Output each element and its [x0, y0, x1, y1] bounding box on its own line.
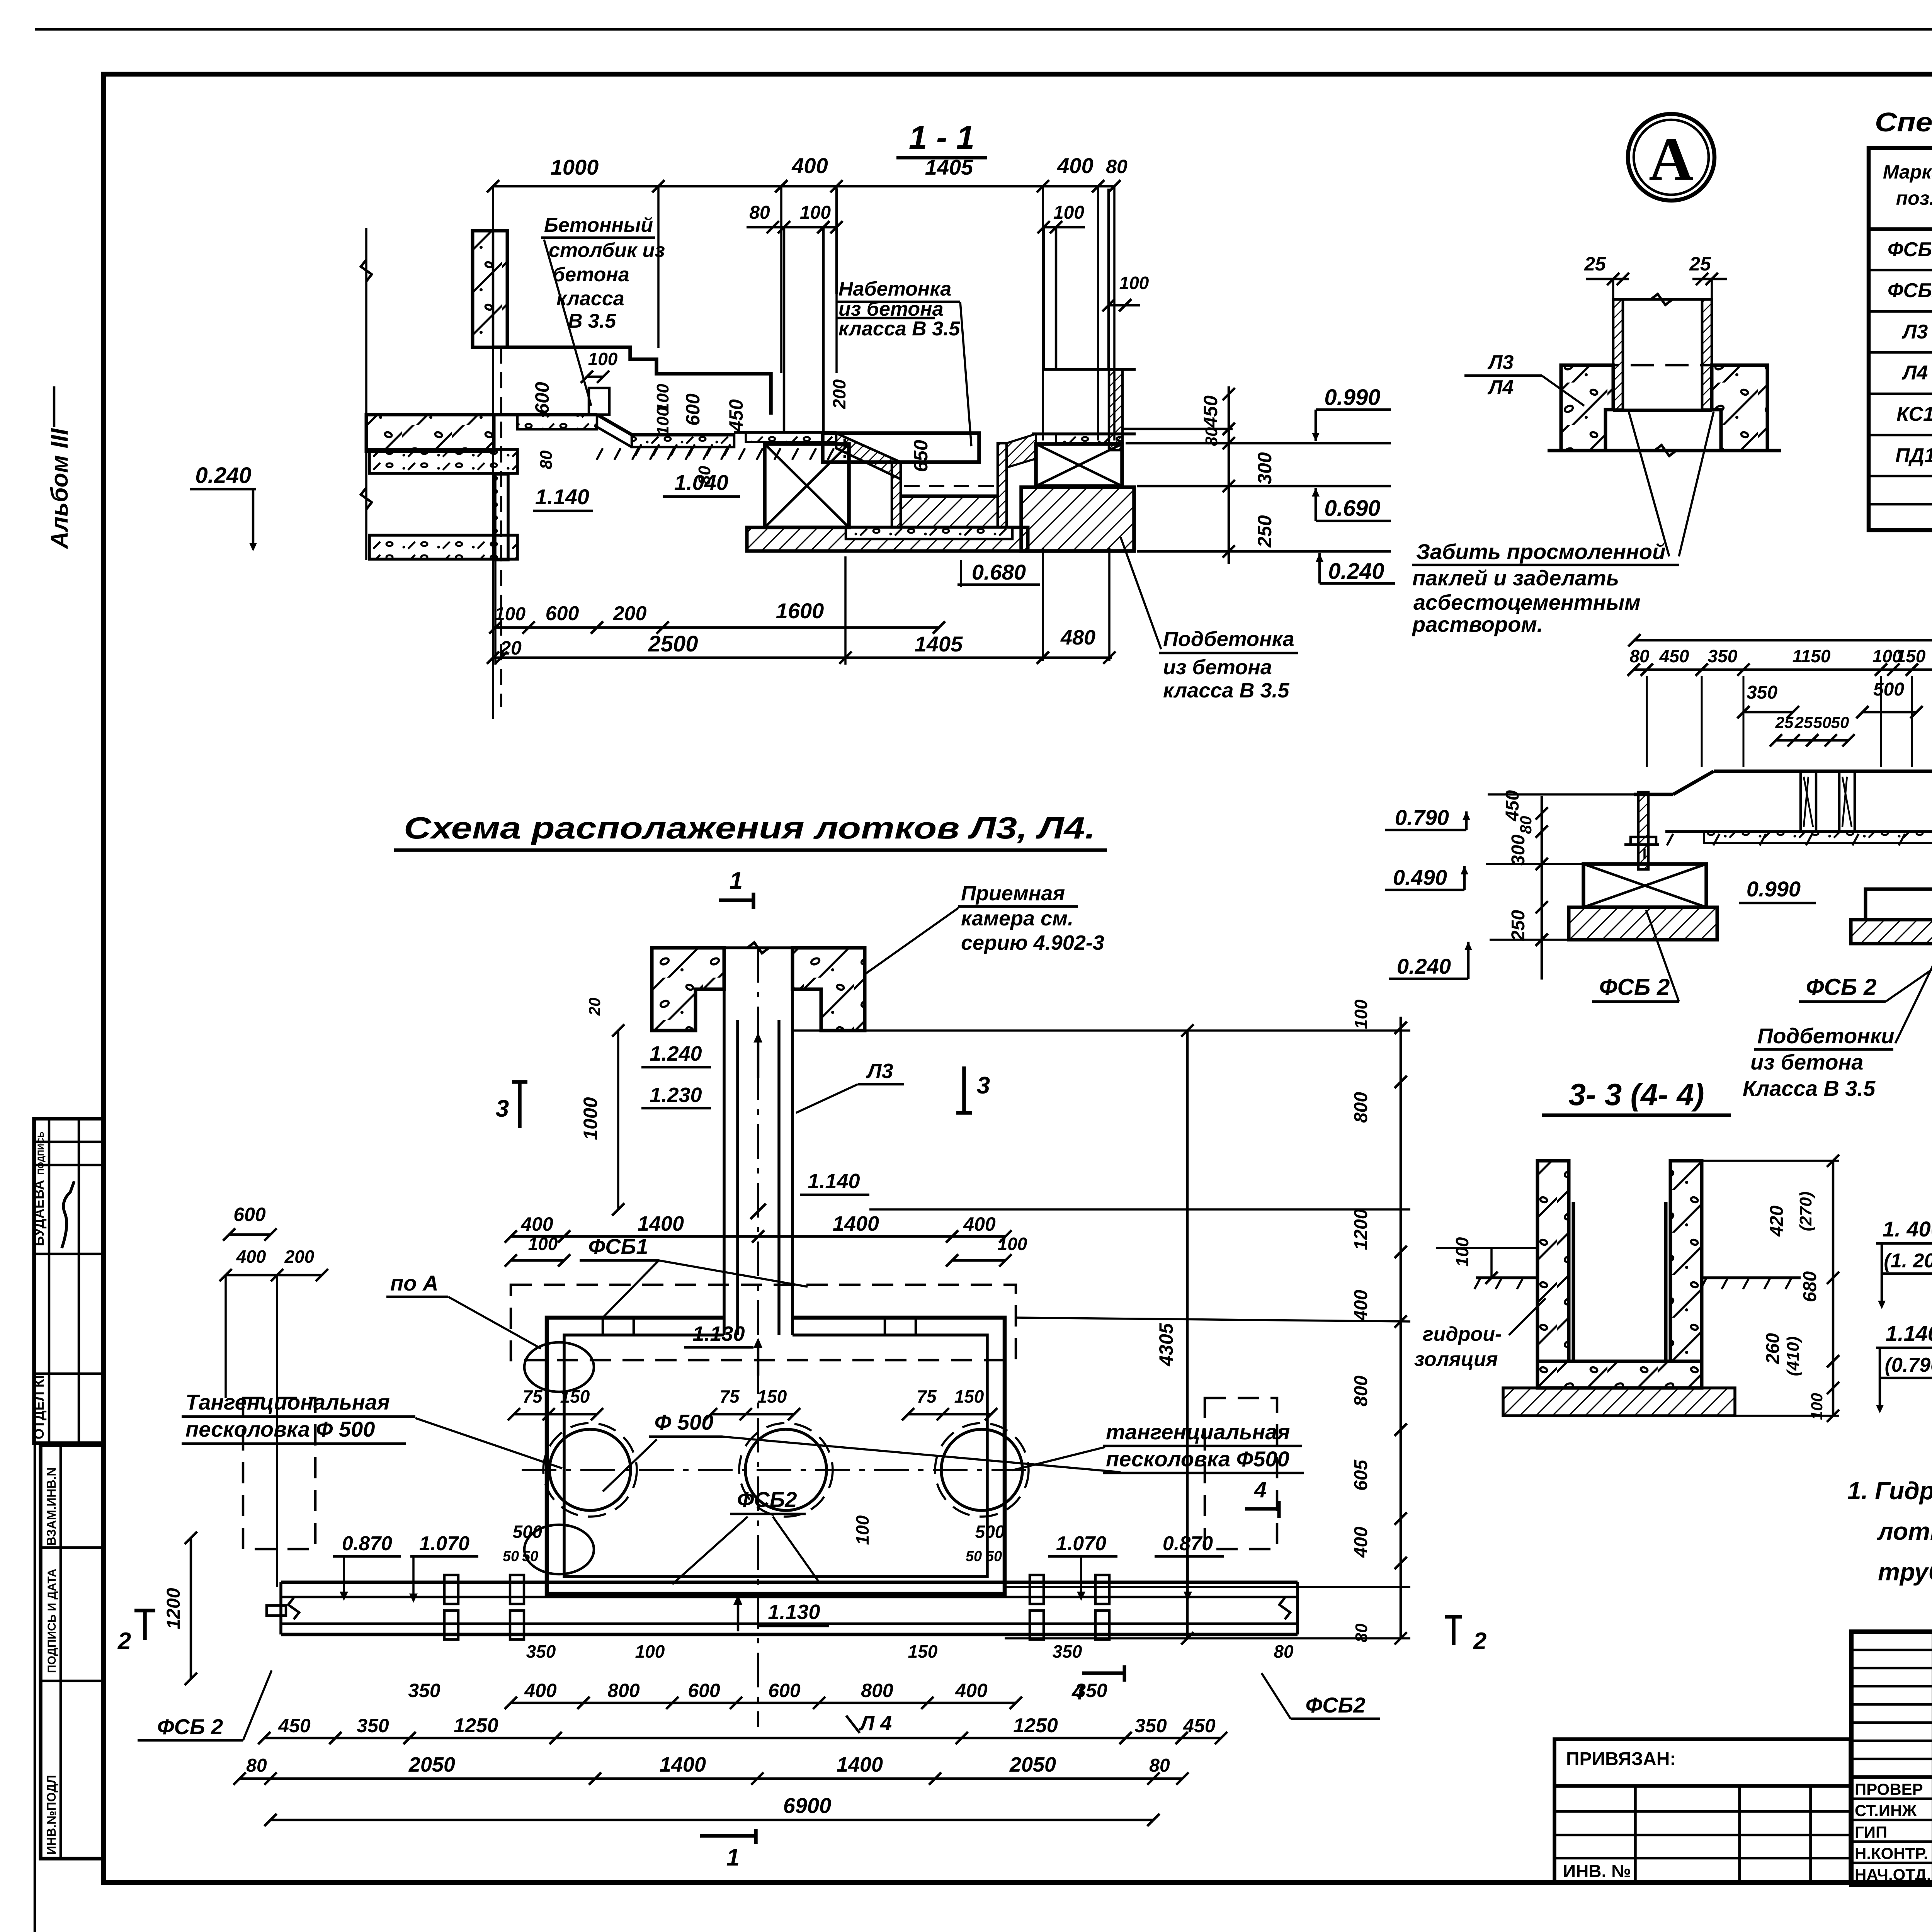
title block upper small rows — [1851, 1649, 1932, 1651]
1-1 left X-box — [765, 444, 849, 527]
svg-text:605: 605 — [1351, 1459, 1371, 1491]
svg-text:Тангенциональная: Тангенциональная — [185, 1390, 390, 1414]
svg-text:0.240: 0.240 — [1328, 559, 1384, 584]
plan bottom dim row B — [264, 1737, 1221, 1740]
svg-text:600: 600 — [682, 393, 704, 426]
plan L3 flow arrow — [757, 1036, 760, 1078]
svg-text:450: 450 — [1200, 395, 1221, 428]
plan top dim chain — [511, 1235, 1005, 1238]
svg-text:класса В 3.5: класса В 3.5 — [838, 318, 960, 340]
svg-text:350: 350 — [526, 1641, 556, 1662]
3-3 U channel right wall — [1670, 1161, 1702, 1361]
svg-text:400: 400 — [236, 1247, 266, 1267]
svg-text:(410): (410) — [1784, 1337, 1803, 1376]
1-1 floor band lower — [632, 433, 734, 437]
detail A channel walls — [1613, 299, 1623, 410]
title block frame — [1851, 1632, 1932, 1884]
svg-text:класса: класса — [556, 287, 624, 310]
svg-text:80: 80 — [1106, 156, 1128, 177]
svg-text:из бетона: из бетона — [1750, 1050, 1863, 1074]
2-2 witness lines — [1646, 676, 1648, 767]
svg-text:1250: 1250 — [454, 1714, 498, 1737]
1-1 ramp into trough right — [1007, 434, 1036, 468]
svg-text:1 - 1: 1 - 1 — [909, 119, 975, 156]
2-2 middle pad hatched — [1851, 920, 1932, 944]
svg-text:800: 800 — [861, 1680, 893, 1701]
svg-text:1: 1 — [730, 867, 743, 894]
svg-text:0.990: 0.990 — [1324, 385, 1380, 410]
1-1 top witness lines — [492, 186, 494, 719]
2-2 left vertical dim — [1541, 796, 1543, 980]
svg-text:100: 100 — [998, 1234, 1027, 1254]
detail A leaders to note — [1629, 412, 1669, 556]
svg-text:КС1: КС1 — [1896, 403, 1932, 425]
svg-text:труб см. лист АС 15.: труб см. лист АС 15. — [1878, 1558, 1932, 1586]
svg-text:столбик из: столбик из — [549, 239, 665, 262]
svg-text:80: 80 — [1202, 427, 1221, 446]
svg-text:1.230: 1.230 — [650, 1083, 702, 1107]
svg-text:Л4: Л4 — [1901, 362, 1928, 384]
svg-text:1.070: 1.070 — [419, 1532, 469, 1555]
1-1 central witness walls — [783, 227, 786, 433]
svg-text:из бетона: из бетона — [1163, 656, 1272, 679]
detail A circle mark — [1628, 114, 1714, 201]
svg-text:350: 350 — [1708, 646, 1738, 666]
svg-text:ВЗАМ.ИНВ.N: ВЗАМ.ИНВ.N — [44, 1467, 58, 1546]
2-2 left footing X-box — [1583, 864, 1706, 907]
1-1 bottom pebble strip — [846, 527, 1012, 539]
svg-text:500: 500 — [1873, 679, 1904, 700]
svg-text:песколовка Ф 500: песколовка Ф 500 — [185, 1417, 375, 1441]
svg-text:450: 450 — [1183, 1715, 1216, 1736]
2-2 pillar drop dashes — [1643, 849, 1646, 864]
svg-text:1.140: 1.140 — [1886, 1321, 1932, 1345]
1-1 ramp into trough left — [836, 433, 901, 479]
svg-text:800: 800 — [1351, 1092, 1371, 1123]
svg-text:ПРИВЯЗАН:: ПРИВЯЗАН: — [1566, 1749, 1676, 1769]
svg-text:0.680: 0.680 — [972, 560, 1026, 584]
1-1 stolbik outline — [493, 347, 771, 415]
svg-text:80: 80 — [1352, 1623, 1371, 1642]
svg-text:Спецификация к схеме расположе: Спецификация к схеме расположения канало… — [1875, 107, 1932, 137]
svg-text:25: 25 — [1689, 253, 1711, 275]
detail A drawing: right concrete block — [1712, 365, 1767, 451]
svg-text:200: 200 — [613, 602, 647, 625]
svg-text:паклей и заделать: паклей и заделать — [1412, 566, 1619, 590]
1-1 trough right wall — [998, 443, 1007, 527]
svg-text:400: 400 — [1351, 1290, 1371, 1321]
svg-text:150: 150 — [560, 1386, 590, 1406]
1-1 bottom dim row 1 — [493, 626, 939, 629]
1-1 stolbik small step — [589, 388, 609, 415]
svg-text:20: 20 — [500, 637, 522, 659]
svg-text:асбестоцементным: асбестоцементным — [1413, 590, 1641, 614]
svg-text:300: 300 — [1508, 835, 1529, 866]
svg-text:3: 3 — [496, 1095, 509, 1122]
svg-text:4: 4 — [1071, 1679, 1084, 1704]
svg-text:0.240: 0.240 — [195, 463, 251, 488]
svg-text:600: 600 — [546, 602, 579, 625]
1-1 left floor slab — [366, 415, 494, 451]
plan basin top notches — [603, 1318, 634, 1335]
svg-text:ФСБ 2: ФСБ 2 — [1599, 974, 1670, 1000]
plan bottom dim row C — [240, 1777, 1182, 1780]
svg-text:600: 600 — [233, 1204, 266, 1225]
svg-text:100: 100 — [653, 384, 672, 412]
svg-text:1405: 1405 — [915, 632, 963, 656]
svg-text:100: 100 — [495, 604, 526, 624]
svg-text:50: 50 — [986, 1548, 1002, 1565]
svg-text:75: 75 — [719, 1386, 740, 1406]
1-1 floor line left-center — [494, 413, 597, 417]
1-1 right floor line — [1122, 428, 1233, 430]
svg-text:400: 400 — [524, 1680, 557, 1701]
svg-text:25: 25 — [1584, 253, 1606, 275]
svg-text:В 3.5: В 3.5 — [568, 310, 616, 332]
1-1 left floor strip — [369, 449, 517, 473]
svg-text:400: 400 — [1057, 153, 1093, 178]
3-3 U channel left wall — [1537, 1161, 1569, 1361]
svg-text:80: 80 — [1629, 646, 1650, 666]
svg-text:БУДАЕВА: БУДАЕВА — [31, 1180, 47, 1246]
svg-text:НАЧ.ОТД.: НАЧ.ОТД. — [1855, 1866, 1931, 1884]
svg-text:25: 25 — [1794, 713, 1813, 731]
svg-text:Л3: Л3 — [1487, 351, 1514, 374]
svg-text:0.690: 0.690 — [1324, 496, 1380, 521]
svg-text:80: 80 — [537, 450, 556, 469]
svg-text:золяция: золяция — [1414, 1348, 1498, 1371]
1-1 left lower wall strip — [495, 474, 508, 560]
svg-text:400: 400 — [520, 1213, 553, 1235]
svg-text:2500: 2500 — [648, 631, 698, 656]
svg-text:500: 500 — [975, 1522, 1005, 1542]
svg-text:100: 100 — [1351, 999, 1371, 1029]
svg-text:50: 50 — [1813, 713, 1832, 731]
svg-text:20: 20 — [585, 998, 604, 1016]
svg-text:50: 50 — [503, 1548, 519, 1565]
svg-text:50: 50 — [522, 1548, 538, 1565]
svg-text:75: 75 — [522, 1386, 543, 1406]
svg-text:250: 250 — [1508, 910, 1529, 941]
svg-text:350: 350 — [1747, 682, 1777, 703]
svg-text:ПОДПИСЬ: ПОДПИСЬ — [36, 1131, 46, 1175]
1-1 right X-box — [1036, 444, 1122, 486]
3-3 inner face lines — [1572, 1202, 1575, 1361]
svg-text:1.140: 1.140 — [808, 1170, 860, 1193]
svg-text:Подбетонка: Подбетонка — [1163, 628, 1294, 651]
plan bottom dim row D 6900 — [270, 1819, 1153, 1821]
svg-text:3- 3 (4- 4): 3- 3 (4- 4) — [1568, 1077, 1704, 1112]
svg-text:ГИП: ГИП — [1855, 1823, 1887, 1841]
1-1 right wall group — [1109, 369, 1122, 450]
1-1 bottom witness lines — [494, 560, 497, 665]
svg-text:80: 80 — [1274, 1641, 1294, 1662]
svg-text:100: 100 — [1053, 202, 1084, 223]
svg-text:80: 80 — [749, 202, 770, 223]
outer border left lower — [34, 1119, 36, 1932]
svg-text:1. Гидроизоляция боковых пов: 1. Гидроизоляция боковых поверхностей — [1847, 1477, 1932, 1505]
svg-text:260: 260 — [1763, 1333, 1783, 1364]
svg-text:680: 680 — [1800, 1271, 1820, 1302]
svg-text:0.870: 0.870 — [342, 1532, 392, 1555]
plan bottom dim row A — [511, 1702, 1016, 1704]
svg-text:бетона: бетона — [553, 264, 629, 286]
svg-text:Приемная: Приемная — [961, 882, 1065, 905]
svg-text:480: 480 — [1060, 626, 1095, 649]
svg-text:25: 25 — [1775, 713, 1794, 731]
svg-text:2: 2 — [1473, 1628, 1486, 1655]
svg-text:1.130: 1.130 — [768, 1600, 820, 1624]
3-3 bottom slab — [1537, 1361, 1702, 1388]
svg-text:ПД1: ПД1 — [1895, 444, 1932, 467]
svg-text:1200: 1200 — [1351, 1209, 1371, 1250]
svg-text:600: 600 — [688, 1680, 720, 1701]
3-3 right dim chain — [1832, 1161, 1835, 1416]
svg-text:3: 3 — [977, 1072, 990, 1099]
svg-text:поз.: поз. — [1896, 187, 1932, 209]
2-2 middle slab — [1866, 889, 1932, 920]
svg-text:(1. 200): (1. 200) — [1884, 1250, 1932, 1272]
svg-text:350: 350 — [1134, 1715, 1167, 1736]
svg-text:1: 1 — [726, 1844, 740, 1871]
svg-text:(270): (270) — [1796, 1192, 1815, 1231]
plan sand trap circles — [549, 1429, 631, 1510]
2-2 main dim chain — [1634, 668, 1932, 671]
detail A drawing: left concrete block — [1561, 365, 1613, 451]
sidebar upper stamp table — [34, 1119, 103, 1443]
plan left dashed box FSB2 — [243, 1398, 315, 1549]
spec table frame — [1869, 148, 1932, 530]
svg-text:0.790: 0.790 — [1395, 805, 1449, 830]
svg-text:400: 400 — [1351, 1527, 1371, 1558]
svg-text:1150: 1150 — [1793, 646, 1831, 666]
svg-text:200: 200 — [284, 1247, 315, 1267]
sidebar lower stamp table — [41, 1445, 103, 1859]
svg-text:400: 400 — [963, 1213, 996, 1235]
title block signature columns — [1932, 1632, 1932, 1884]
svg-text:Л3: Л3 — [1901, 321, 1928, 343]
svg-text:50: 50 — [1831, 713, 1849, 731]
plan dashed foundation rect — [511, 1285, 1016, 1360]
1-1 trough bottom hatched fill — [901, 496, 998, 527]
svg-text:1.070: 1.070 — [1056, 1532, 1106, 1555]
svg-text:Альбом III: Альбом III — [46, 428, 73, 549]
svg-text:Набетонка: Набетонка — [838, 278, 951, 300]
svg-text:1200: 1200 — [163, 1588, 184, 1629]
svg-text:1.040: 1.040 — [674, 470, 728, 495]
svg-text:ФСБ2: ФСБ2 — [737, 1487, 797, 1512]
svg-text:1405: 1405 — [925, 155, 973, 179]
plan basin inner wall — [564, 1335, 987, 1577]
svg-text:2050: 2050 — [408, 1753, 455, 1776]
plan L4 flanges — [444, 1575, 458, 1604]
svg-text:Забить просмоленной: Забить просмоленной — [1416, 539, 1665, 564]
svg-text:150: 150 — [954, 1386, 984, 1406]
detail A ground line — [1548, 449, 1781, 452]
svg-text:250: 250 — [1254, 515, 1276, 548]
2-2 left footing pad — [1569, 907, 1717, 940]
svg-text:ПРОВЕР: ПРОВЕР — [1855, 1780, 1923, 1798]
1-1 top dimension chain — [493, 185, 1114, 188]
svg-text:ФСБ1: ФСБ1 — [1888, 238, 1932, 261]
2-2 left pillar — [1638, 792, 1648, 869]
svg-text:350: 350 — [1053, 1641, 1082, 1662]
svg-text:1600: 1600 — [776, 599, 824, 623]
1-1 right reference lines — [1126, 442, 1391, 445]
privyazan table — [1554, 1739, 1850, 1882]
svg-text:2050: 2050 — [1009, 1753, 1056, 1776]
svg-text:раствором.: раствором. — [1412, 612, 1543, 636]
svg-text:80: 80 — [1149, 1755, 1170, 1776]
plan detail ovals — [524, 1342, 594, 1392]
svg-text:100: 100 — [588, 349, 618, 369]
svg-text:ФСБ 2: ФСБ 2 — [1806, 974, 1877, 1000]
svg-text:150: 150 — [1896, 646, 1926, 666]
svg-text:80: 80 — [246, 1755, 267, 1776]
svg-text:Бетонный: Бетонный — [544, 214, 653, 236]
svg-text:1.130: 1.130 — [692, 1322, 745, 1345]
plan centerline vertical — [757, 948, 759, 1727]
plan chamber left block — [652, 948, 724, 1031]
svg-text:ИНВ.№ПОДЛ: ИНВ.№ПОДЛ — [44, 1775, 58, 1855]
svg-text:420: 420 — [1767, 1206, 1787, 1237]
svg-text:СТ.ИНЖ: СТ.ИНЖ — [1855, 1801, 1917, 1820]
svg-text:Ф 500: Ф 500 — [655, 1410, 714, 1434]
1-1 right vertical dim — [1228, 386, 1230, 564]
1-1 left witness line with breaks — [365, 228, 367, 560]
svg-text:1000: 1000 — [551, 155, 599, 179]
svg-text:100: 100 — [800, 202, 831, 223]
svg-text:450: 450 — [725, 399, 747, 432]
plan lower channel L4 — [281, 1581, 1298, 1584]
1-1 left lower floor strip — [369, 535, 517, 559]
svg-text:80: 80 — [1517, 816, 1535, 834]
svg-text:гидрои-: гидрои- — [1423, 1323, 1502, 1345]
plan right dashed box FSB2 — [1205, 1398, 1277, 1549]
svg-text:800: 800 — [607, 1680, 640, 1701]
svg-text:100: 100 — [1119, 273, 1149, 293]
svg-text:ИНВ. №: ИНВ. № — [1563, 1861, 1631, 1881]
outer border top — [35, 28, 1932, 31]
svg-text:1.140: 1.140 — [535, 485, 589, 509]
plan right total dim 4305 — [1186, 1031, 1189, 1638]
svg-text:650: 650 — [910, 440, 932, 472]
svg-text:450: 450 — [278, 1715, 311, 1736]
svg-text:Схема располажения лотков Л3: Схема располажения лотков Л3, Л4. — [404, 811, 1095, 845]
svg-text:камера см.: камера см. — [961, 907, 1073, 930]
svg-text:1400: 1400 — [638, 1212, 684, 1235]
svg-text:4305: 4305 — [1155, 1323, 1177, 1366]
svg-text:по А: по А — [390, 1271, 438, 1295]
plan right vertical dim chain segments — [1400, 1017, 1402, 1638]
plan L3 channel walls — [723, 989, 726, 1335]
svg-text:лотков и участков металличе: лотков и участков металлических — [1877, 1517, 1932, 1545]
svg-text:ФСБ2: ФСБ2 — [1306, 1693, 1366, 1717]
svg-text:100: 100 — [528, 1234, 558, 1254]
svg-text:450: 450 — [1659, 646, 1689, 666]
svg-text:2: 2 — [117, 1628, 131, 1655]
detail A dashed centerline — [1596, 364, 1727, 367]
2-2 left ramp — [1673, 771, 1714, 794]
svg-text:0.240: 0.240 — [1397, 954, 1451, 978]
svg-text:4: 4 — [1254, 1477, 1267, 1502]
1-1 bottom slab wide — [747, 527, 1028, 551]
svg-text:ФСБ2: ФСБ2 — [1888, 279, 1932, 302]
1-1 bottom dim row 2 — [493, 656, 1112, 659]
2-2 channel wall groups — [1799, 771, 1802, 832]
sidebar signature squiggle — [62, 1181, 74, 1248]
1-1 wall axis dashed — [500, 347, 502, 707]
2-2 profile top — [1714, 770, 1932, 773]
svg-text:ОТДЕЛ КГ: ОТДЕЛ КГ — [31, 1371, 47, 1439]
svg-text:75: 75 — [917, 1386, 937, 1406]
svg-text:ФСБ 2: ФСБ 2 — [157, 1714, 223, 1739]
1-1 nabetonka slab — [823, 433, 979, 462]
svg-text:100: 100 — [635, 1641, 665, 1662]
svg-text:400: 400 — [791, 153, 828, 178]
2-2 pebble band — [1704, 832, 1932, 843]
1-1 floor band pebble — [517, 415, 597, 429]
svg-text:Класса В 3.5: Класса В 3.5 — [1743, 1076, 1876, 1100]
svg-text:тангенциальная: тангенциальная — [1106, 1420, 1290, 1444]
svg-text:1.240: 1.240 — [650, 1042, 702, 1065]
svg-text:600: 600 — [768, 1680, 801, 1701]
plan chamber right block — [793, 948, 865, 1031]
svg-text:0.990: 0.990 — [1747, 877, 1801, 901]
3-3 footing pad — [1503, 1388, 1735, 1416]
plan right horizontal witness lines — [793, 1029, 1410, 1032]
svg-text:Л3: Л3 — [866, 1060, 893, 1083]
detail A channel bottom — [1613, 409, 1712, 412]
3-3 ground lines — [1476, 1276, 1537, 1279]
svg-text:серию 4.902-3: серию 4.902-3 — [961, 931, 1104, 954]
svg-text:1400: 1400 — [833, 1212, 879, 1235]
svg-text:класса В 3.5: класса В 3.5 — [1163, 679, 1289, 702]
plan basin outer wall — [547, 1318, 1005, 1594]
svg-text:1250: 1250 — [1013, 1714, 1058, 1737]
svg-text:350: 350 — [357, 1715, 389, 1736]
1-1 trough left wall — [892, 462, 901, 527]
svg-text:100: 100 — [852, 1515, 872, 1545]
svg-text:300: 300 — [1254, 452, 1276, 485]
1-1 right podbetonka block — [1021, 487, 1134, 551]
1-1 left wall (hatched) — [473, 231, 507, 347]
plan L4 left connector box — [267, 1605, 286, 1616]
svg-text:100: 100 — [1452, 1237, 1472, 1267]
svg-text:600: 600 — [531, 382, 553, 414]
1-1 floor slope — [597, 415, 632, 435]
svg-text:150: 150 — [757, 1386, 787, 1406]
svg-text:1400: 1400 — [837, 1753, 883, 1776]
svg-text:1. 400: 1. 400 — [1883, 1217, 1932, 1241]
plan centerline horizontal — [522, 1469, 1036, 1471]
svg-text:150: 150 — [908, 1641, 938, 1662]
1-1 floor left of X-box — [734, 431, 836, 434]
svg-text:6900: 6900 — [783, 1793, 832, 1818]
svg-text:Н.КОНТР.: Н.КОНТР. — [1855, 1844, 1928, 1862]
2-2 bottom of slab — [1665, 830, 1932, 833]
svg-text:500: 500 — [513, 1522, 543, 1542]
svg-text:800: 800 — [1351, 1376, 1371, 1406]
svg-text:Л4: Л4 — [1487, 376, 1514, 399]
svg-text:Подбетонки: Подбетонки — [1757, 1024, 1895, 1048]
svg-text:0.490: 0.490 — [1393, 865, 1447, 889]
svg-text:песколовка Ф500: песколовка Ф500 — [1106, 1447, 1289, 1471]
svg-text:1000: 1000 — [580, 1097, 601, 1140]
svg-text:ФСБ1: ФСБ1 — [588, 1234, 648, 1259]
svg-text:ПОДПИСЬ И ДАТА: ПОДПИСЬ И ДАТА — [46, 1569, 58, 1673]
svg-text:50: 50 — [966, 1548, 982, 1565]
